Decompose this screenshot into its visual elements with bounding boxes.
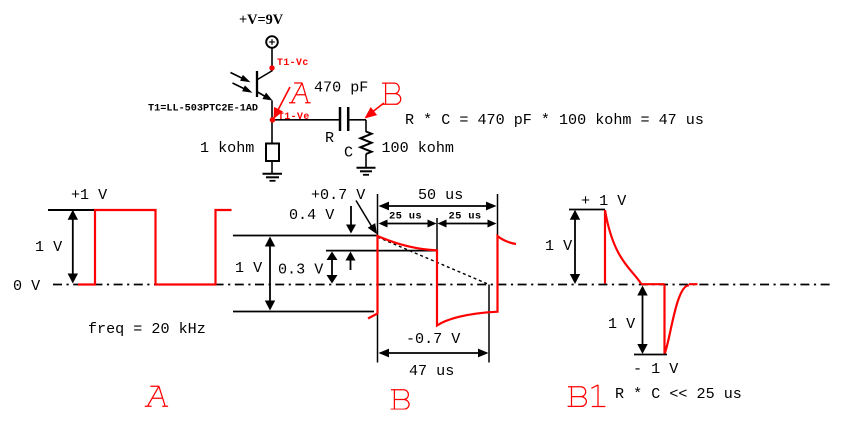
svg-text:47 us: 47 us [409, 362, 454, 380]
svg-text:1 V: 1 V [608, 315, 635, 333]
svg-text:1 V: 1 V [545, 237, 572, 255]
svg-text:0.4 V: 0.4 V [289, 206, 334, 224]
svg-text:25 us: 25 us [449, 211, 482, 223]
svg-text:freq = 20 kHz: freq = 20 kHz [88, 320, 206, 338]
svg-text:- 1 V: - 1 V [633, 360, 678, 378]
svg-text:R: R [325, 129, 334, 147]
svg-text:50 us: 50 us [418, 186, 463, 204]
svg-text:R * C = 470 pF * 100 kohm = 47: R * C = 470 pF * 100 kohm = 47 us [405, 111, 704, 129]
svg-text:1 kohm: 1 kohm [200, 139, 254, 157]
svg-text:0 V: 0 V [13, 277, 40, 295]
svg-text:1 V: 1 V [235, 259, 262, 277]
svg-text:470 pF: 470 pF [314, 79, 368, 97]
svg-text:+ 1 V: + 1 V [581, 192, 626, 210]
svg-text:C: C [344, 144, 353, 162]
svg-text:T1=LL-503PTC2E-1AD: T1=LL-503PTC2E-1AD [148, 104, 258, 115]
svg-text:0.3 V: 0.3 V [278, 261, 323, 279]
svg-text:25 us: 25 us [389, 211, 422, 223]
svg-text:T1-Vc: T1-Vc [277, 57, 309, 68]
svg-text:R * C << 25 us: R * C << 25 us [615, 385, 742, 403]
svg-text:-0.7 V: -0.7 V [406, 330, 460, 348]
svg-text:100 kohm: 100 kohm [382, 139, 454, 157]
svg-text:+V=9V: +V=9V [239, 12, 284, 28]
svg-text:+1 V: +1 V [71, 186, 107, 204]
svg-text:T1-Ve: T1-Ve [278, 111, 310, 122]
svg-text:1 V: 1 V [35, 238, 62, 256]
